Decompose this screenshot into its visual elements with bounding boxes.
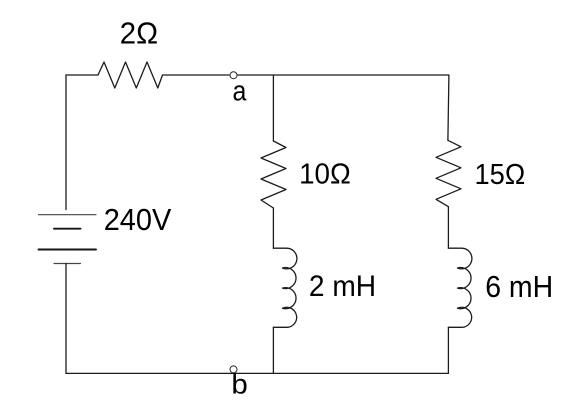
battery plate short (bottom) <box>54 263 81 265</box>
wire: left rail vertical down to battery top <box>65 75 67 210</box>
svg-text:240V: 240V <box>104 204 172 237</box>
node b terminal circle <box>230 366 237 373</box>
node a terminal circle <box>230 72 237 79</box>
wire: middle branch between resistor and inductor <box>272 208 274 248</box>
wire: middle branch bottom vertical <box>272 327 274 373</box>
wire: right branch between resistor and inductor <box>447 207 449 249</box>
wire: top-left horizontal from left rail to resistor <box>66 74 98 76</box>
wire: middle branch top vertical <box>272 75 274 141</box>
wire: bottom horizontal rail <box>66 372 448 374</box>
wire: right branch bottom vertical <box>447 327 449 373</box>
battery plate short (second) <box>54 228 81 230</box>
battery 240V source: plate long top <box>39 214 97 216</box>
resistor 10ohm zigzag <box>261 141 286 208</box>
svg-text:a: a <box>233 76 248 108</box>
svg-text:b: b <box>231 369 247 400</box>
inductor 6mH coil <box>448 248 471 327</box>
svg-text:6 mH: 6 mH <box>485 271 553 304</box>
wire: top horizontal from resistor through node a to right corner <box>163 74 449 76</box>
resistor 2ohm zigzag <box>98 62 163 88</box>
inductor 2mH coil <box>273 248 296 327</box>
svg-text:2 mH: 2 mH <box>309 270 376 303</box>
resistor 15ohm zigzag <box>436 140 461 206</box>
battery plate long (third) <box>39 249 97 251</box>
wire: right branch top vertical <box>448 75 449 140</box>
svg-text:10Ω: 10Ω <box>299 159 351 191</box>
svg-text:15Ω: 15Ω <box>475 159 526 191</box>
svg-text:2Ω: 2Ω <box>120 17 158 50</box>
wire: left rail from battery bottom to bottom rail <box>65 264 67 374</box>
